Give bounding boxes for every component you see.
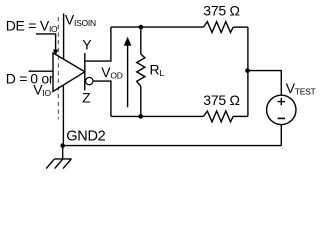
svg-text:375 Ω: 375 Ω	[203, 3, 239, 19]
wire D input	[29, 70, 53, 72]
svg-text:375 Ω: 375 Ω	[203, 92, 239, 108]
wire DE horizontal	[36, 34, 56, 50]
wire bottom rail left	[111, 115, 204, 117]
wire VTEST bottom lead	[280, 125, 282, 146]
svg-text:D =: D =	[6, 71, 28, 87]
VOD measurement arrow	[127, 44, 129, 107]
junction dot right vertical / VTEST branch	[245, 68, 250, 73]
inverting bubble on Z output	[86, 77, 93, 84]
wire bottom GND2 rail	[63, 145, 282, 147]
resistor RL bottom lead	[140, 86, 142, 116]
VTEST source circle	[267, 95, 296, 124]
plus sign	[278, 101, 285, 103]
resistor 375 ohm top	[204, 22, 234, 33]
junction dot top rail / RL	[139, 25, 144, 30]
wire branch to VTEST	[248, 71, 281, 96]
junction dot bottom rail / RL	[138, 114, 143, 119]
arrowhead DE into driver	[53, 50, 58, 56]
ground symbol bar	[54, 158, 71, 160]
resistor RL top lead	[140, 27, 142, 54]
wire bottom rail right	[233, 115, 248, 117]
resistor 375 ohm bottom	[204, 111, 234, 122]
wire right vertical	[247, 27, 249, 116]
driver output bar	[84, 53, 86, 90]
wire driver ground to GND2	[62, 85, 64, 145]
wire Y stub	[85, 27, 111, 61]
junction dot GND2	[60, 143, 65, 148]
wire Z stub	[93, 81, 111, 116]
wire VISOIN supply	[63, 14, 65, 60]
minus sign	[278, 117, 285, 119]
resistor RL	[137, 54, 145, 86]
isolation barrier dashed line	[57, 17, 59, 120]
driver triangle U1	[53, 53, 85, 92]
ground symbol hatch	[63, 159, 71, 169]
svg-text:Z: Z	[82, 90, 91, 106]
wire top rail left	[111, 26, 204, 28]
svg-text:GND2: GND2	[66, 129, 105, 145]
ground symbol stem	[62, 146, 64, 159]
wire top rail right	[233, 26, 248, 28]
svg-text:Y: Y	[82, 37, 92, 53]
